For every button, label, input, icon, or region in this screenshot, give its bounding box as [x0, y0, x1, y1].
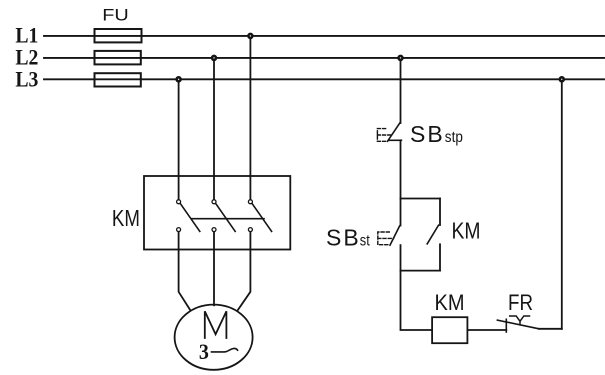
wire start button to coil [401, 245, 433, 330]
wire L2 rail [44, 57, 604, 59]
overload relay contact FR [497, 316, 538, 332]
wire contact 2 to motor [213, 232, 215, 305]
label KM (main contacts) [112, 205, 140, 231]
wire coil to FR [467, 329, 506, 331]
svg-text:SB: SB [326, 225, 361, 251]
KM main contact pole 2 [212, 200, 235, 232]
label FR [508, 290, 533, 315]
wire branch right lower [439, 244, 441, 270]
motor letter M [205, 311, 227, 338]
contactor KM main contacts box [144, 176, 290, 250]
label KM (aux contact) [452, 218, 481, 244]
junction L2 control tap [399, 56, 403, 60]
wire stop button to start button [400, 140, 402, 225]
label SBst [326, 225, 370, 251]
mechanical linkage line [192, 218, 264, 220]
svg-text:st: st [360, 233, 370, 250]
junction L3 drop [177, 77, 181, 81]
svg-text:KM: KM [452, 218, 481, 244]
junction L1 drop [248, 34, 252, 38]
fuse FU phase L3 [95, 73, 141, 86]
stop button SBstp (NC pushbutton) [377, 123, 401, 141]
motor label 3 [199, 339, 209, 364]
label L1 [15, 22, 38, 47]
svg-text:KM: KM [112, 205, 140, 231]
junction L3 control tap [560, 77, 564, 81]
junction L2 drop [212, 56, 216, 60]
fuse FU phase L2 [95, 51, 141, 65]
wire drop L3 to contact 1 [178, 79, 180, 199]
svg-text:FR: FR [508, 290, 533, 315]
wire contact 3 to motor [238, 232, 251, 311]
wire drop L1 to contact 3 [249, 36, 251, 200]
label SBstp [410, 121, 463, 147]
motor tilde ~ [212, 348, 238, 352]
fuse FU phase L1 [95, 29, 142, 42]
wire L2 to stop button [400, 58, 402, 123]
auxiliary contact KM (NO) [427, 225, 438, 244]
motor M circle [175, 305, 253, 370]
wire contact 1 to motor [179, 232, 191, 311]
svg-text:L3: L3 [15, 67, 38, 92]
svg-text:KM: KM [435, 290, 465, 315]
wire FR to right riser [539, 328, 562, 330]
label L2 [15, 44, 38, 69]
label L3 [15, 67, 38, 92]
svg-text:FU: FU [102, 6, 129, 25]
KM main contact pole 1 [177, 200, 200, 232]
wire branch right upper [439, 199, 441, 226]
start button SBst (NO pushbutton) [378, 226, 400, 245]
KM main contact pole 3 [248, 200, 271, 232]
wire L1 rail [44, 35, 604, 37]
svg-text:3: 3 [199, 339, 209, 364]
coil KM [432, 317, 467, 343]
wire branch bottom [401, 270, 441, 272]
svg-text:SB: SB [410, 121, 445, 147]
label FU [102, 6, 129, 25]
wire drop L2 to contact 2 [213, 58, 215, 200]
wire L3 rail [44, 78, 604, 80]
wire branch top [401, 198, 441, 200]
svg-text:stp: stp [445, 129, 463, 146]
wire right riser to L3 [561, 79, 563, 328]
label KM (coil) [435, 290, 465, 315]
